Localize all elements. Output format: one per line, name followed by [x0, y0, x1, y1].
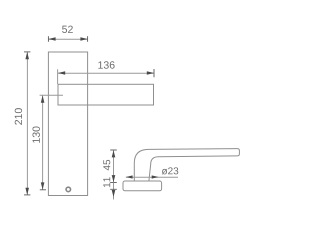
dimension ø23 (neck diameter): [126, 167, 178, 178]
dimension 11 (rose height): [103, 177, 116, 199]
lever outline (side view): [134, 149, 239, 181]
dimension 210 (plate height): [15, 52, 31, 195]
handle lever (front view): [58, 84, 154, 105]
dimension 45 (lever height above rose): [103, 150, 116, 183]
screw hole: [66, 187, 71, 192]
rosette (side view): [123, 181, 162, 191]
dimension 136 (lever length): [58, 61, 154, 84]
dimension 52 (plate width): [48, 26, 87, 42]
plate (front view): [48, 52, 87, 196]
dimension 130 (hole distance): [32, 95, 63, 190]
